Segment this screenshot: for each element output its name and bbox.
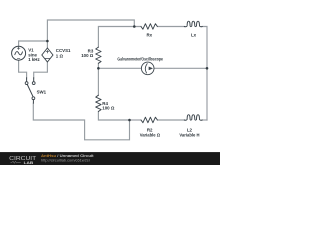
- svg-text:1 Ω: 1 Ω: [56, 53, 64, 58]
- svg-text:http://circuitlab.com/c61w2sr: http://circuitlab.com/c61w2sr: [41, 159, 91, 163]
- svg-text:100 Ω: 100 Ω: [81, 53, 94, 58]
- svg-text:LAB: LAB: [24, 160, 34, 165]
- svg-text:Variable Ω: Variable Ω: [140, 133, 161, 138]
- svg-text:Rx: Rx: [146, 33, 152, 38]
- svg-text:AntHsu / Unnamed Circuit: AntHsu / Unnamed Circuit: [41, 154, 94, 158]
- svg-text:Variable H: Variable H: [179, 133, 199, 138]
- svg-text:1 kHz: 1 kHz: [28, 57, 40, 62]
- svg-text:Galvanometer/Oscilloscope: Galvanometer/Oscilloscope: [117, 57, 163, 62]
- svg-text:100 Ω: 100 Ω: [102, 105, 115, 110]
- svg-text:CCVS1: CCVS1: [56, 48, 71, 53]
- svg-text:SW1: SW1: [37, 90, 47, 95]
- svg-text:Lx: Lx: [191, 33, 197, 38]
